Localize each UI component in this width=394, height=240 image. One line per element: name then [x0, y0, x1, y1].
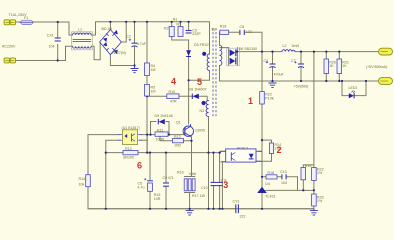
wire U1 right pins to base cluster	[142, 134, 183, 136]
capacitor CY1 Y-cap in ground rail	[233, 200, 246, 219]
svg-text:TL431: TL431	[265, 195, 275, 199]
svg-text:(+5V/500mA): (+5V/500mA)	[366, 65, 387, 69]
wire top rail fuse to choke jog	[33, 22, 73, 35]
svg-text:4: 4	[171, 77, 176, 87]
svg-text:C13: C13	[280, 170, 287, 174]
svg-text:104: 104	[49, 45, 55, 49]
capacitor C10	[211, 178, 227, 185]
svg-text:L2: L2	[283, 44, 287, 48]
transformer T1 secondary winding	[220, 45, 222, 65]
svg-text:R11: R11	[157, 129, 163, 133]
wire bridge right vertex to rail	[121, 22, 126, 42]
diode D9	[155, 114, 173, 124]
capacitor C3 snubber	[186, 29, 202, 37]
resistor R18 comp network	[266, 171, 277, 179]
wire TL431 anode to ground rail	[261, 196, 263, 209]
wire lower divider resistor leads	[313, 190, 315, 209]
transistor Q1	[183, 124, 193, 137]
diode D6 (parallel pair upper)	[227, 48, 240, 66]
resistor R13	[123, 147, 138, 160]
wire R24 branch	[256, 140, 272, 161]
capacitor CX1	[47, 34, 61, 49]
bridge rectifier BD1	[100, 30, 122, 55]
wire R21 bleeder leads	[338, 52, 340, 81]
wire D9 parallel loop	[151, 122, 170, 135]
wire C9 vertical	[165, 153, 167, 209]
svg-text:R17 1W: R17 1W	[192, 194, 206, 198]
wire aux winding bottom down to ground rail	[208, 117, 210, 209]
svg-text:3mH: 3mH	[292, 44, 300, 48]
svg-text:+5V(500): +5V(500)	[294, 85, 309, 89]
wire R20 bleeder leads	[325, 52, 327, 81]
svg-text:R18: R18	[220, 25, 227, 29]
wire choke right bottom to bridge bottom	[91, 43, 100, 60]
svg-text:4.7uF: 4.7uF	[137, 42, 147, 46]
TL431 U3	[257, 182, 275, 198]
capacitor C13 comp	[280, 170, 287, 185]
wire ground rail gap at CY1	[88, 208, 314, 210]
resistor R3 snubber	[177, 23, 184, 37]
svg-text:AC220V: AC220V	[2, 45, 16, 49]
svg-text:R3: R3	[177, 23, 182, 27]
ground at divider bottom	[310, 209, 318, 215]
svg-text:1K: 1K	[329, 64, 334, 68]
svg-text:N3: N3	[200, 109, 205, 113]
svg-text:R18: R18	[268, 171, 275, 175]
svg-text:L1: L1	[78, 27, 82, 31]
svg-text:470uF: 470uF	[274, 72, 285, 76]
svg-text:2W07(N): 2W07(N)	[112, 51, 126, 55]
resistor R4 startup	[145, 63, 156, 76]
wire V+ output rail	[237, 51, 379, 53]
svg-text:2: 2	[277, 145, 282, 155]
svg-text:1M: 1M	[151, 68, 156, 72]
connector J1 AC input line	[4, 20, 16, 25]
resistor R10 base	[167, 90, 179, 103]
transformer aux phase dot	[202, 101, 206, 105]
svg-text:U4: U4	[265, 182, 270, 186]
wire bridge top vertex to rail	[109, 22, 111, 30]
svg-text:Q1: Q1	[176, 121, 181, 125]
resistor R22 divider upper-right	[312, 167, 324, 180]
wire snubber drops from rail	[172, 22, 189, 30]
svg-text:222P: 222P	[192, 32, 201, 36]
resistor R24	[269, 143, 282, 154]
wire divider string from V+ rail down	[303, 52, 314, 191]
svg-text:10R: 10R	[154, 197, 161, 201]
wire base drive line R10 D8	[147, 96, 209, 100]
capacitor C8	[240, 25, 252, 35]
capacitor C4 electrolytic	[264, 59, 285, 77]
svg-text:R14: R14	[79, 177, 86, 181]
wire C7 vertical	[300, 52, 302, 81]
connector VOUT-	[379, 78, 393, 85]
optocoupler U1	[118, 126, 142, 145]
svg-text:CY1: CY1	[233, 200, 240, 204]
svg-text:471: 471	[168, 176, 174, 180]
wire sense bottom to rail	[189, 193, 191, 209]
wire choke right top to rail	[91, 22, 209, 54]
LED D10	[349, 86, 358, 98]
choke L1	[72, 27, 93, 50]
svg-text:T1AL,250V: T1AL,250V	[9, 13, 28, 17]
svg-text:10k: 10k	[79, 182, 85, 186]
diode D5 clamp	[186, 43, 210, 57]
wire top AC rail from connector to fuse	[17, 21, 21, 23]
wire secondary snubber R18 C8	[220, 32, 263, 51]
svg-text:T1: T1	[211, 28, 215, 32]
fuse F1	[20, 16, 34, 25]
svg-text:1M: 1M	[151, 90, 156, 94]
svg-text:C9: C9	[163, 176, 168, 180]
wire U1 pin2 to ground rail via x105.8	[106, 140, 118, 209]
inductor L2	[282, 44, 299, 52]
capacitor C5 electrolytic	[138, 178, 161, 201]
svg-text:C2: C2	[126, 35, 131, 39]
wire diode pair bars	[229, 48, 238, 66]
resistor R22 opto feed	[260, 92, 274, 105]
wire R4 R5 startup string	[146, 22, 148, 153]
wire secondary bottom to VOUT- rail	[220, 66, 379, 81]
svg-text:2R2: 2R2	[175, 144, 182, 148]
svg-text:R12: R12	[174, 135, 181, 139]
wire primary bottom to collector line	[189, 71, 210, 81]
resistor R11	[155, 129, 168, 142]
svg-text:1%: 1%	[317, 199, 323, 203]
wire C2 from rail down to plates and ground	[134, 22, 136, 66]
svg-text:R10: R10	[169, 90, 176, 94]
wire feedback line y152.6	[106, 151, 226, 152]
wire C5 vertical	[149, 153, 151, 209]
resistor R18 secondary snubber	[220, 25, 229, 35]
transformer primary phase dot	[202, 52, 206, 56]
resistor R19 divider upper-left	[301, 164, 311, 180]
capacitor C11	[201, 182, 223, 190]
wire U2 pin2 to ground rail	[222, 162, 225, 209]
svg-text:BD-04: BD-04	[102, 27, 112, 31]
ground below C4	[269, 83, 277, 87]
svg-text:D9 1N4148: D9 1N4148	[155, 114, 173, 118]
wire bottom AC rail from connector to choke jog	[16, 46, 73, 60]
transformer T1 aux winding	[206, 101, 208, 117]
svg-text:R2: R2	[164, 27, 169, 31]
svg-text:104: 104	[281, 181, 287, 185]
transformer T1 primary winding	[207, 54, 209, 70]
wire C10 vertical	[213, 153, 215, 209]
resistor R23 divider lower 1%	[312, 194, 324, 206]
wire base line y134.6	[88, 135, 314, 209]
svg-text:47R: 47R	[170, 99, 177, 103]
svg-text:C10: C10	[201, 186, 208, 190]
wire emitter vertical	[191, 137, 193, 177]
optocoupler U2	[221, 146, 263, 162]
svg-text:C8: C8	[240, 25, 245, 29]
wire U1 pin2 stub	[142, 139, 147, 141]
connector VOUT+	[379, 48, 393, 55]
svg-text:(U1 EL817): (U1 EL817)	[122, 126, 140, 130]
svg-text:D6 SB2100: D6 SB2100	[239, 47, 257, 51]
svg-text:3: 3	[223, 180, 228, 190]
resistor R12	[173, 135, 184, 148]
svg-text:100R: 100R	[156, 138, 165, 142]
svg-text:D5 FR107: D5 FR107	[194, 43, 210, 47]
wire x262 down to TL431	[261, 151, 263, 196]
svg-text:LED1: LED1	[349, 86, 358, 90]
ground below sense resistors	[186, 209, 194, 215]
svg-text:P10k: P10k	[265, 96, 273, 100]
svg-text:1: 1	[248, 96, 253, 106]
svg-text:4.7u: 4.7u	[138, 186, 145, 190]
svg-text:N1: N1	[173, 17, 178, 21]
diode D7 (parallel pair lower)	[230, 47, 257, 64]
svg-text:1%: 1%	[317, 171, 323, 175]
svg-text:PC817: PC817	[237, 146, 248, 150]
resistor R5 startup	[145, 84, 156, 96]
svg-text:5: 5	[197, 77, 202, 87]
capacitor C9	[163, 176, 174, 186]
wire U1 tie vertical x147.2	[146, 135, 148, 153]
resistor R14	[79, 175, 91, 187]
wire secondary pin to diode pair	[220, 47, 229, 49]
wire LED loop	[342, 81, 366, 96]
svg-text:D8 1N4007: D8 1N4007	[189, 88, 207, 92]
wire bridge bottom vertex to DC- line	[110, 55, 134, 66]
svg-text:1K: 1K	[342, 64, 347, 68]
resistor R20 bleeder	[324, 59, 336, 74]
wire comp branch R18b C13	[262, 177, 298, 191]
wire C11 vertical	[219, 153, 221, 209]
resistor R21 bleeder	[337, 59, 349, 74]
connector J2 AC input neutral	[4, 58, 16, 63]
svg-text:CX1: CX1	[47, 34, 54, 38]
svg-text:C7: C7	[291, 59, 296, 63]
wire R12 line	[160, 135, 192, 141]
diode D8	[189, 88, 207, 100]
capacitor C2 electrolytic	[126, 35, 147, 48]
svg-text:C4: C4	[264, 59, 269, 63]
wire C4 vertical	[272, 52, 274, 81]
capacitor C7 electrolytic	[291, 59, 304, 68]
svg-text:R19: R19	[305, 164, 312, 168]
svg-text:6: 6	[137, 160, 142, 170]
svg-text:R13: R13	[125, 147, 132, 151]
svg-text:SR100: SR100	[123, 156, 134, 160]
wire opto feedback vertical x262	[259, 52, 263, 152]
transformer T1 core	[213, 28, 216, 118]
svg-text:13005: 13005	[195, 129, 205, 133]
svg-text:0.68: 0.68	[189, 172, 196, 176]
ground below C2	[131, 66, 139, 73]
wire snubber bottom bar	[172, 37, 189, 125]
svg-text:R16: R16	[177, 171, 184, 175]
sense resistors R16 R17 parallel	[177, 171, 206, 198]
resistor R2 snubber	[164, 27, 174, 37]
wire TL431 ref line	[269, 189, 314, 191]
svg-text:222: 222	[240, 214, 246, 218]
svg-text:103: 103	[246, 30, 252, 34]
wire CX1 vertical	[57, 22, 59, 61]
